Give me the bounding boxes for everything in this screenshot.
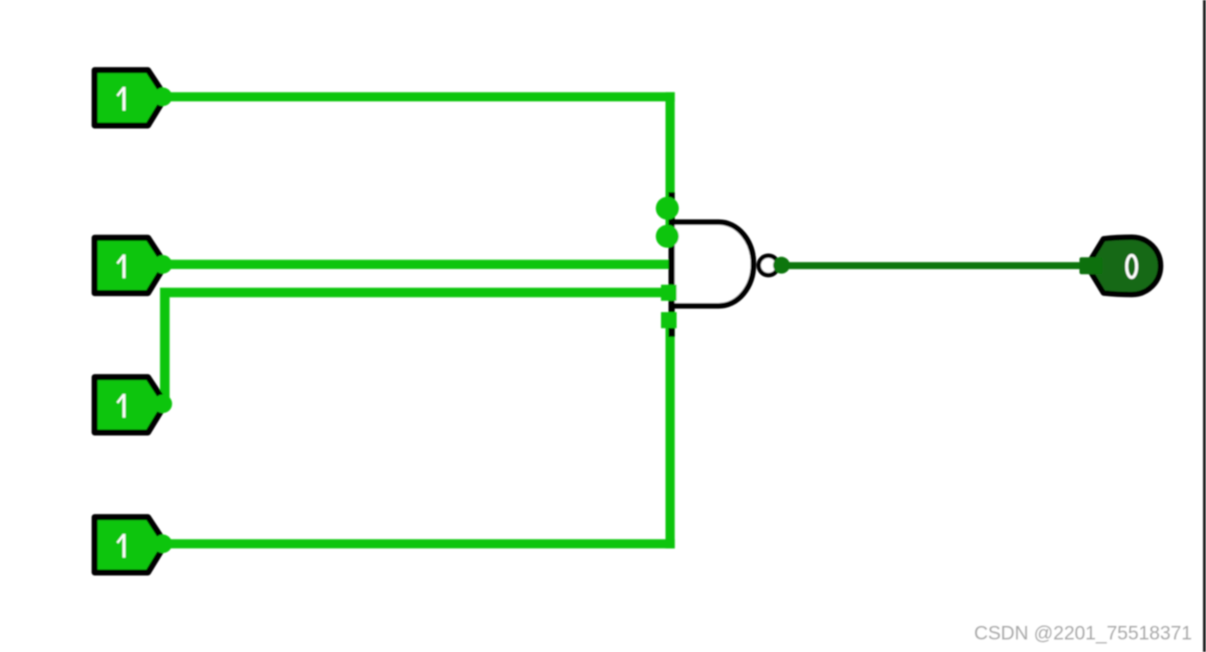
input pin P3 (95, 377, 173, 432)
wire W4 horizontal from pin 4 (157, 539, 675, 548)
nand gate U1 input line (668, 192, 674, 337)
input pin P1 (95, 70, 173, 125)
input pin P2 (95, 238, 173, 293)
node N1 square (661, 285, 677, 301)
input pin P4 (95, 517, 173, 572)
nand gate U1 body (672, 222, 754, 306)
output node dot (773, 257, 790, 274)
wire W4 vertical rise to gate inputs (665, 316, 674, 548)
junction node J2 (656, 225, 679, 248)
wire W3 horizontal to gate (160, 288, 672, 297)
wire W1 horizontal from pin 1 (157, 92, 675, 101)
wire W5 output (low) (782, 262, 1089, 269)
wire W2 horizontal from pin 2 (157, 260, 675, 269)
wire W1 vertical drop to gate inputs (665, 92, 674, 241)
output pin P5 (1080, 237, 1161, 294)
wire W3 vertical from pin 3 (160, 288, 170, 404)
border line right (1203, 0, 1206, 652)
svg-text:CSDN @2201_75518371: CSDN @2201_75518371 (974, 623, 1192, 644)
nand gate U1 bubble (759, 256, 778, 275)
node N2 square (661, 312, 677, 328)
junction node J1 (656, 197, 679, 220)
